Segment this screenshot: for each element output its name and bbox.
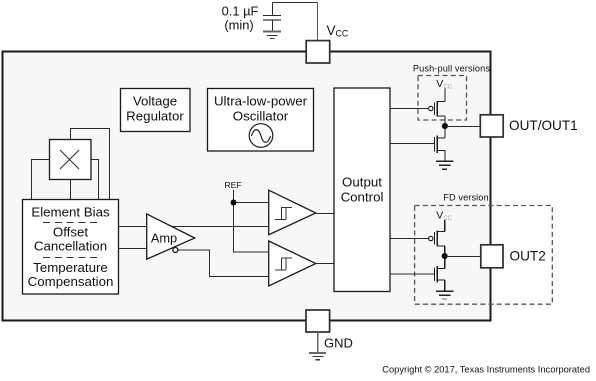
- wire OC to Q3 gate: [390, 238, 428, 240]
- transistor Q3 PMOS (FD): [429, 220, 445, 256]
- element bias box: [23, 200, 119, 295]
- node push-pull output junction: [442, 123, 448, 129]
- oscillator sine symbol: [249, 124, 273, 148]
- svg-text:Amp: Amp: [151, 231, 177, 246]
- node REF junction: [231, 200, 237, 206]
- wire OC to Q4 gate: [390, 273, 434, 275]
- svg-text:VCC: VCC: [327, 23, 349, 39]
- svg-text:Regulator: Regulator: [126, 109, 184, 124]
- pin OUT2: [481, 245, 503, 268]
- wire OC to Q1 gate: [390, 108, 428, 110]
- wire CMP1 output: [316, 213, 334, 215]
- svg-text:OUT/OUT1: OUT/OUT1: [509, 118, 578, 133]
- dashed separator 1: [43, 222, 98, 224]
- main device block: [3, 52, 491, 321]
- voltage regulator box: [121, 89, 191, 132]
- wire bias to amp (top, continues as amp output): [119, 226, 269, 228]
- wire CMP2 output: [316, 263, 334, 265]
- amp inverting output bubble: [173, 248, 178, 253]
- svg-text:OUT2: OUT2: [510, 249, 546, 264]
- svg-text:Oscillator: Oscillator: [233, 109, 289, 124]
- comparator CMP2: [269, 241, 316, 286]
- wire hall bottom: [70, 180, 72, 200]
- svg-text:FD version: FD version: [443, 193, 488, 203]
- comparator CMP1: [269, 190, 316, 235]
- svg-text:Ultra-low-power: Ultra-low-power: [214, 94, 308, 109]
- wire bias to amp (bottom): [119, 248, 151, 250]
- ground (GND pin): [309, 353, 326, 360]
- capacitor C1 top wire: [273, 3, 318, 41]
- dashed separator 2: [43, 257, 98, 259]
- svg-text:Cancellation: Cancellation: [34, 238, 107, 253]
- output control box: [334, 88, 390, 292]
- wire hall right: [91, 160, 99, 200]
- wire hall top loop: [71, 129, 110, 200]
- svg-text:Voltage: Voltage: [133, 94, 177, 109]
- ground (capacitor): [263, 32, 281, 39]
- pin GND: [306, 310, 330, 332]
- hysteresis symbol CMP2: [275, 258, 292, 270]
- wire OC to Q2 gate: [390, 143, 434, 145]
- svg-text:REF: REF: [224, 180, 241, 190]
- amplifier A1: [147, 214, 195, 259]
- hall element X1: [50, 140, 92, 180]
- dashed box FD version: [415, 206, 553, 305]
- wire hall left: [32, 160, 50, 200]
- transistor Q4 NMOS (FD): [435, 256, 445, 291]
- svg-text:GND: GND: [324, 336, 353, 351]
- wire junction to OUT pin: [445, 126, 480, 128]
- wire GND pin to ground: [317, 332, 319, 352]
- node FD output junction: [442, 253, 448, 259]
- svg-text:Offset: Offset: [53, 225, 89, 240]
- pin VCC: [306, 41, 330, 63]
- wire junction to OUT2 pin: [445, 256, 481, 258]
- svg-text:Control: Control: [341, 190, 384, 205]
- svg-text:0.1 µF: 0.1 µF: [222, 4, 259, 19]
- ground (push-pull): [436, 161, 454, 169]
- transistor Q2 NMOS (push-pull): [435, 126, 445, 161]
- label VCC: [327, 23, 349, 39]
- svg-text:Element Bias: Element Bias: [31, 205, 110, 220]
- capacitor C1: [263, 3, 281, 32]
- wire amp inverted output: [178, 250, 268, 277]
- wire REF: [234, 190, 269, 252]
- svg-text:Copyright © 2017, Texas Instru: Copyright © 2017, Texas Instruments Inco…: [382, 365, 590, 375]
- transistor Q1 PMOS (push-pull): [429, 89, 445, 127]
- hysteresis symbol CMP1: [275, 208, 292, 220]
- dashed box push-pull: [418, 76, 467, 121]
- svg-text:(min): (min): [224, 18, 253, 33]
- ground (FD): [436, 291, 454, 299]
- svg-text:Push-pull versions: Push-pull versions: [413, 64, 491, 74]
- hall element wires: [32, 129, 110, 200]
- svg-text:Output: Output: [342, 175, 382, 190]
- svg-text:Temperature: Temperature: [33, 260, 108, 275]
- svg-text:Compensation: Compensation: [28, 274, 114, 289]
- oscillator box U-osc: [208, 89, 314, 152]
- pin OUT/OUT1: [480, 115, 503, 137]
- label 0.1 uF (min): [222, 4, 259, 33]
